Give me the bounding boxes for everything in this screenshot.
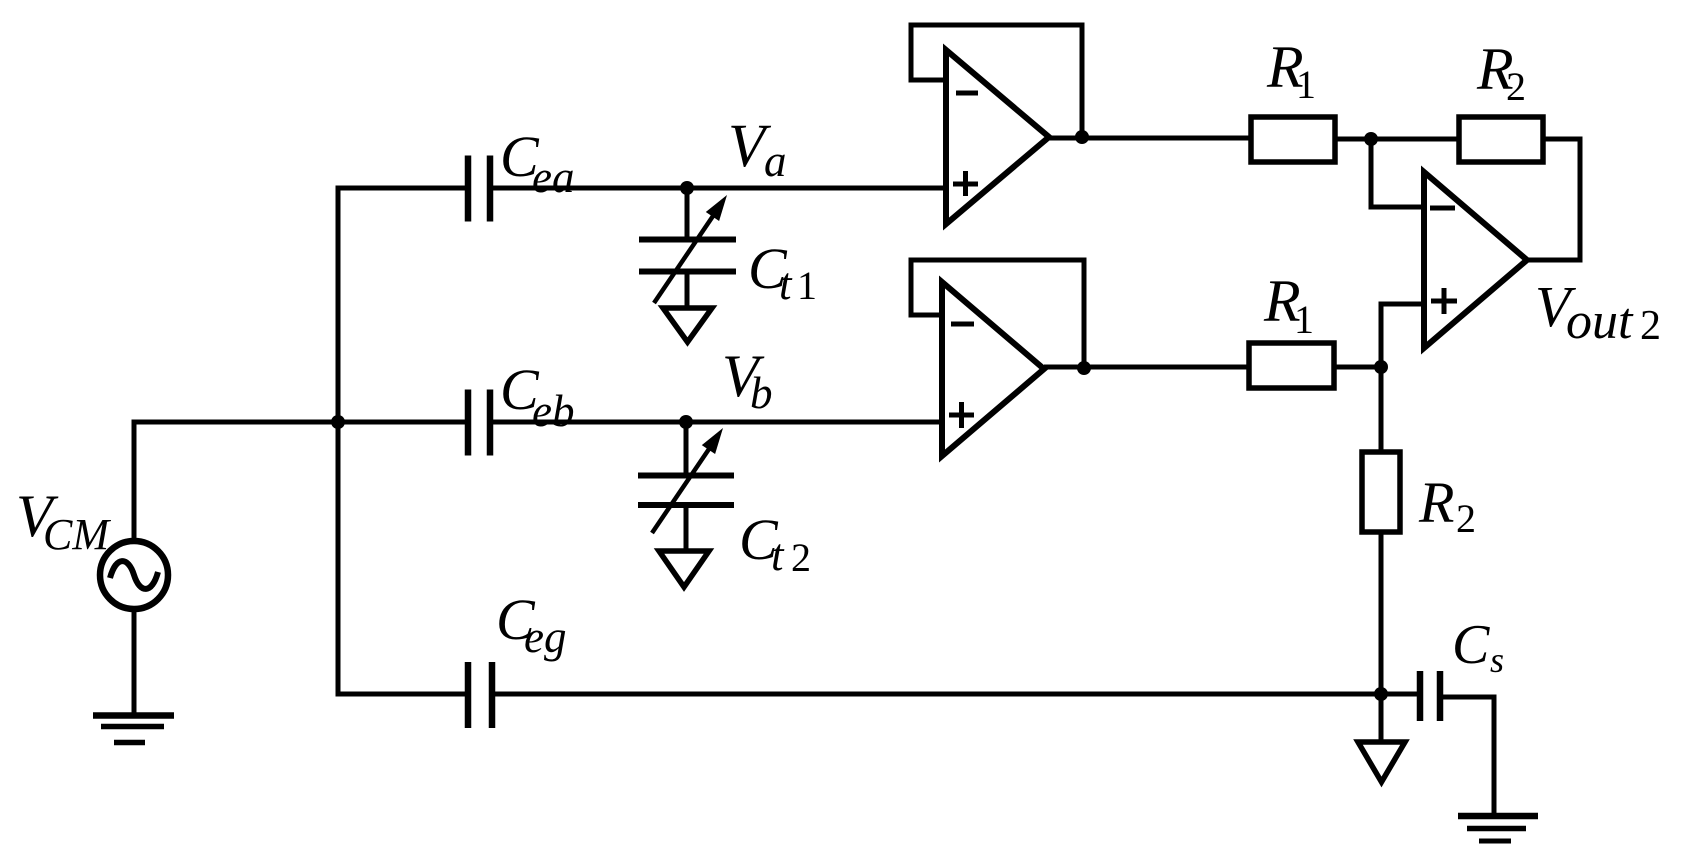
- wire R1 to R2 top: [1335, 137, 1459, 142]
- AC source circle V_CM: [100, 541, 168, 609]
- U2 plus sign: [949, 402, 974, 428]
- wire C_s right lead: [1443, 697, 1494, 816]
- wire R1 bottom to node: [1334, 365, 1381, 370]
- node junction left branch: [331, 415, 345, 429]
- ground (earth) under C_s: [1458, 816, 1538, 841]
- C_t2 bottom plate: [638, 502, 734, 508]
- svg-text:eb: eb: [532, 386, 574, 436]
- source V_CM: [100, 420, 168, 715]
- wire V_b row from C_eb to op-amp U2 plus input: [493, 420, 942, 425]
- wire top row to C_ea: [336, 186, 466, 191]
- wire R2 vertical to bottom row: [1379, 532, 1384, 694]
- svg-text:R: R: [1418, 470, 1454, 535]
- wire C_t2 bottom stub: [684, 508, 689, 551]
- svg-text:out: out: [1566, 293, 1634, 350]
- svg-text:2: 2: [791, 535, 811, 580]
- svg-text:t: t: [771, 530, 785, 580]
- wire R2 to U3 output (feedback): [1543, 139, 1580, 260]
- node U2 output: [1077, 361, 1091, 375]
- capacitor C_eg: [468, 662, 492, 728]
- capacitor C_eb: [468, 390, 490, 456]
- resistor R2 vertical: [1362, 452, 1400, 532]
- wire C_t2 top stub: [684, 422, 689, 473]
- ground arrow under C_t2: [659, 551, 709, 587]
- C_t1 variable arrow shaft: [654, 216, 713, 303]
- C_t1 top plate: [639, 237, 736, 243]
- resistor R2 top: [1459, 117, 1543, 162]
- wire V_CM bottom lead: [132, 609, 137, 714]
- op-amp U3: [1381, 172, 1527, 367]
- wire node down to R2: [1379, 367, 1384, 452]
- svg-text:2: 2: [1456, 496, 1476, 541]
- U3 minus sign: [1430, 206, 1455, 211]
- C_t1 variable arrow head: [706, 195, 727, 221]
- wire U3 plus input: [1381, 304, 1424, 367]
- wire C_t1 top stub: [685, 188, 690, 237]
- wire U2 feedback loop: [911, 260, 1084, 368]
- svg-text:1: 1: [1296, 62, 1316, 107]
- wire V_CM top lead: [132, 420, 137, 542]
- svg-text:C: C: [1452, 614, 1490, 676]
- capacitor C_s: [1420, 671, 1440, 721]
- capacitor C_t1 (variable): [639, 188, 736, 342]
- svg-text:eg: eg: [524, 612, 566, 662]
- U3 plus sign: [1431, 288, 1457, 314]
- capacitor C_ea: [468, 156, 490, 222]
- wire U2 output: [1044, 365, 1249, 370]
- ground (earth) under V_CM: [93, 716, 174, 743]
- resistor R1 top: [1251, 117, 1335, 162]
- C_t2 variable arrow shaft: [652, 449, 709, 533]
- U1 plus sign: [953, 171, 978, 196]
- svg-text:ea: ea: [532, 152, 574, 202]
- ground arrow under C_t1: [663, 308, 712, 342]
- node V_b: [679, 415, 693, 429]
- svg-text:a: a: [764, 136, 787, 186]
- svg-text:CM: CM: [43, 510, 111, 559]
- node after R1 top: [1364, 132, 1378, 146]
- ground arrow under bottom node: [1358, 742, 1405, 782]
- svg-text:1: 1: [797, 263, 817, 308]
- wire node to U3 minus input: [1371, 139, 1424, 207]
- wire left vertical branch: [336, 186, 341, 697]
- op-amp U1: [911, 25, 1251, 224]
- resistor R1 bottom: [1249, 343, 1334, 388]
- svg-text:2: 2: [1640, 303, 1661, 349]
- sine wave inside source: [110, 561, 158, 589]
- node U1 output: [1075, 130, 1089, 144]
- node after R1 bottom: [1374, 360, 1388, 374]
- wire main horizontal V_CM row (y=422): [132, 420, 466, 425]
- C_t1 bottom plate: [639, 269, 736, 275]
- svg-text:2: 2: [1506, 64, 1526, 109]
- svg-text:s: s: [1490, 640, 1504, 680]
- U1 minus sign: [956, 91, 978, 96]
- C_t2 top plate: [638, 473, 734, 479]
- op-amp U2: [911, 260, 1249, 456]
- U2 minus sign: [951, 322, 974, 327]
- wire V_a row from C_ea to op-amp U1 plus input: [493, 186, 946, 191]
- node bottom right: [1374, 687, 1388, 701]
- wire bottom row from C_eg to C_s: [495, 692, 1417, 697]
- node V_a: [680, 181, 694, 195]
- wire U1 feedback loop: [911, 25, 1082, 137]
- svg-text:1: 1: [1294, 297, 1314, 342]
- wire C_t1 bottom stub: [685, 274, 690, 308]
- C_t2 variable arrow head: [702, 428, 723, 454]
- svg-text:t: t: [779, 259, 793, 309]
- capacitor C_t2 (variable): [638, 422, 734, 587]
- svg-text:b: b: [750, 368, 773, 418]
- wire U1 output: [1049, 136, 1251, 141]
- wire bottom row to C_eg: [336, 692, 466, 697]
- wire stub to arrow ground: [1379, 694, 1384, 742]
